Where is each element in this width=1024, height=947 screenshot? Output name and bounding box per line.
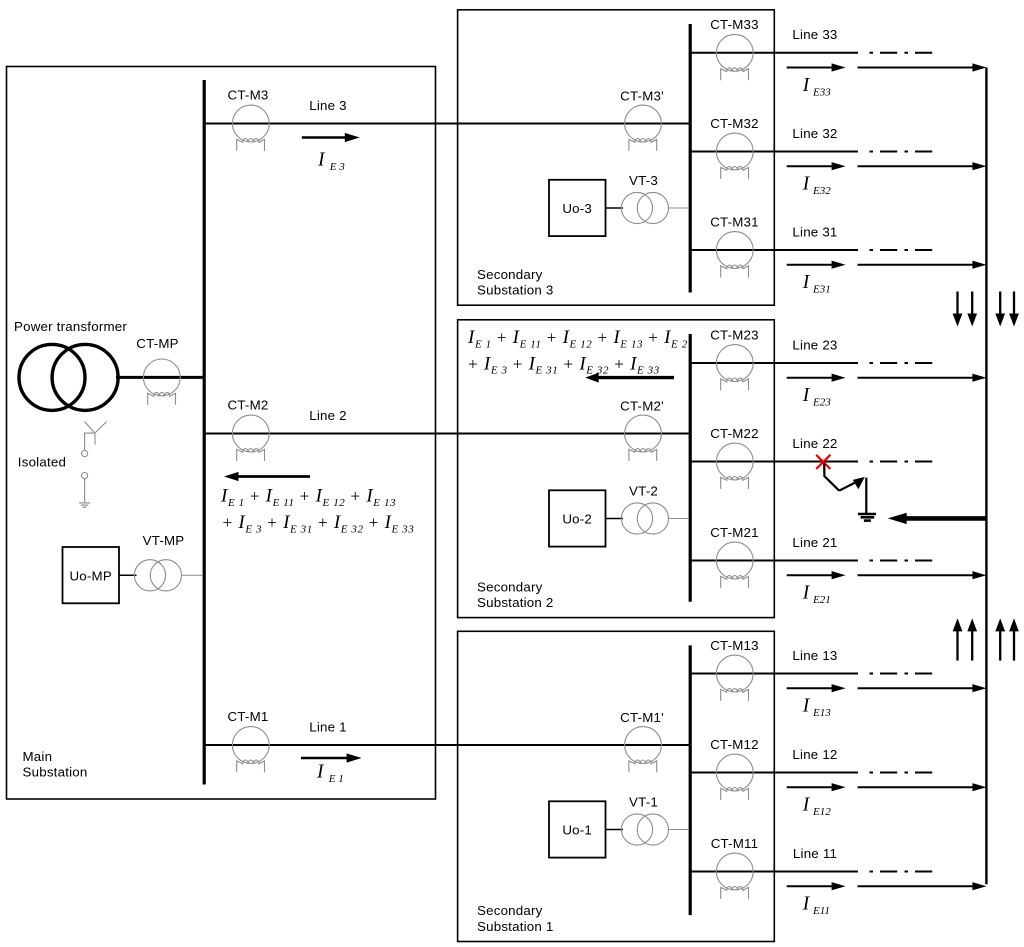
arrow earth current I_E21 (near end) (787, 571, 846, 579)
label VT-MP (143, 533, 185, 548)
wire Line 31 dash-dot continuation (870, 249, 935, 251)
arrow distributed capacitive current down (right pair 2) (1009, 292, 1019, 327)
wire Line 3 (204, 123, 690, 125)
svg-text:Secondary: Secondary (477, 267, 543, 282)
fault red X earth fault location on Line 22 (816, 455, 830, 469)
label CT-M22 (710, 426, 759, 441)
wire Line 22 feeder (690, 461, 858, 463)
terminal lower isolator contact (82, 473, 88, 479)
svg-text:CT-M21: CT-M21 (710, 525, 759, 540)
svg-text:E12: E12 (812, 806, 831, 818)
svg-text:Line 23: Line 23 (792, 337, 837, 352)
device Uo-2 relay box (549, 490, 606, 546)
wire earth-return collector line (985, 68, 987, 885)
CT CT-M12 (716, 754, 753, 800)
svg-text:E 1: E 1 (328, 773, 344, 785)
svg-text:Line 32: Line 32 (792, 126, 837, 141)
bus secondary substation 1 busbar (689, 645, 692, 915)
svg-text:Line 33: Line 33 (792, 27, 837, 42)
label CT-MP (136, 336, 178, 351)
svg-text:E 3: E 3 (329, 161, 345, 173)
wire Line 23 feeder (690, 362, 858, 364)
VT VT-2 (621, 503, 668, 534)
label CT-M13 (710, 638, 759, 653)
wire Uo-MP to VT-MP (119, 574, 137, 576)
label Line 31 (792, 224, 837, 239)
wire VT-3 to busbar (668, 207, 689, 209)
CT CT-M33 (716, 34, 753, 80)
label I_E31 (802, 272, 831, 295)
label Line 2 (309, 408, 347, 423)
enclosure Main Substation box (7, 67, 436, 800)
svg-text:Line 11: Line 11 (793, 846, 837, 861)
svg-text:CT-M1: CT-M1 (228, 709, 269, 724)
label CT-M3' (620, 89, 664, 104)
wire Line 21 dash-dot continuation (870, 560, 935, 562)
wire Line 32 dash-dot continuation (870, 151, 935, 153)
svg-text:CT-M13: CT-M13 (710, 638, 759, 653)
svg-text:Uo-MP: Uo-MP (69, 568, 111, 583)
arrow distributed capacitive current up (left pair 1) (953, 618, 963, 660)
label sum current formula line 1 (secondary substation 2) (467, 327, 688, 350)
label Line 21 (792, 535, 837, 550)
CT CT-M13 (716, 655, 753, 701)
arrow earth current I_E32 (far end into collector) (858, 162, 987, 170)
wire Line 32 feeder (690, 151, 858, 153)
svg-text:Line 12: Line 12 (792, 747, 837, 762)
arrow distributed capacitive current up (right pair 1) (995, 618, 1005, 660)
svg-text:VT-2: VT-2 (629, 484, 658, 499)
enclosure Secondary Substation 2 box (458, 320, 775, 618)
svg-text:CT-M3': CT-M3' (620, 89, 664, 104)
label Line 13 (792, 648, 837, 663)
svg-text:CT-M2: CT-M2 (228, 398, 269, 413)
label Isolated (18, 455, 66, 470)
wire Uo-1 to VT-1 (606, 829, 624, 831)
svg-text:CT-M2': CT-M2' (620, 399, 664, 414)
arrow earth current I_E12 (near end) (787, 783, 846, 791)
bus secondary substation 2 busbar (689, 334, 692, 602)
svg-text:E33: E33 (812, 86, 831, 98)
label Line 12 (792, 747, 837, 762)
arrow earth current I_E31 (near end) (787, 261, 846, 269)
wire Line 11 feeder (690, 871, 858, 873)
label I_E13 (802, 696, 831, 719)
label sum current formula line 2 (secondary substation 2) (467, 353, 660, 376)
wire Line 2 (204, 433, 690, 435)
arrow distributed capacitive current up (left pair 2) (967, 618, 977, 660)
arrow earth current I_E33 (far end into collector) (858, 63, 987, 71)
CT CT-M3 (232, 105, 269, 151)
svg-text:Substation 1: Substation 1 (477, 919, 554, 934)
label sum current formula line 2 (main) (222, 512, 415, 535)
svg-text:Line 13: Line 13 (792, 648, 837, 663)
wire VT-1 to busbar (668, 829, 689, 831)
arrow distributed capacitive current down (left pair 1) (953, 292, 963, 327)
svg-text:E31: E31 (812, 284, 831, 296)
svg-text:IE 1 + IE 11 + IE 12 + IE 13: IE 1 + IE 11 + IE 12 + IE 13 (220, 486, 396, 509)
label VT-3 (629, 173, 658, 188)
label CT-M31 (710, 214, 759, 229)
wire fault path from fault point (824, 464, 839, 491)
CT CT-M2 (232, 415, 269, 461)
svg-text:E23: E23 (812, 397, 831, 409)
wire Line 33 dash-dot continuation (870, 52, 935, 54)
label Line 11 (793, 846, 837, 861)
enclosure Secondary Substation 1 box (458, 631, 775, 941)
arrow sum current toward busbar (secondary substation 2) (585, 373, 674, 383)
label Line 32 (792, 126, 837, 141)
arrow earth current I_E13 (far end into collector) (858, 684, 987, 692)
svg-text:CT-M31: CT-M31 (710, 214, 759, 229)
wire Line 13 dash-dot continuation (870, 673, 935, 675)
wire VT-MP to busbar (181, 574, 203, 576)
arrow sum current on Line 2 toward busbar (224, 472, 310, 481)
arrow earth current I_E23 (far end into collector) (858, 374, 987, 382)
arrow earth current I_E3 direction (302, 133, 360, 142)
power transformer T1 (19, 344, 118, 410)
ground earth symbol (isolated neutral) (79, 503, 90, 507)
label sum current formula line 1 (main) (220, 486, 396, 509)
svg-text:Secondary: Secondary (477, 903, 543, 918)
CT CT-M31 (716, 232, 753, 278)
CT CT-M21 (716, 542, 753, 588)
device Uo-1 relay box (549, 801, 606, 857)
arrow distributed capacitive current up (right pair 2) (1009, 618, 1019, 660)
label Line 22 (792, 436, 837, 451)
arrow total earth-fault current returning from collector to fault (888, 513, 987, 524)
device Uo-3 relay box (549, 180, 606, 236)
label VT-1 (629, 795, 658, 810)
label Line 3 (309, 98, 347, 113)
arrow earth current I_E11 (near end) (787, 882, 846, 890)
svg-text:VT-3: VT-3 (629, 173, 658, 188)
arrow earth current I_E13 (near end) (787, 684, 846, 692)
label I_E21 (802, 583, 831, 606)
CT CT-M23 (716, 345, 753, 391)
label Line 23 (792, 337, 837, 352)
svg-text:CT-M22: CT-M22 (710, 426, 759, 441)
svg-text:CT-M32: CT-M32 (710, 116, 759, 131)
CT CT-M1 (232, 727, 269, 773)
svg-text:Secondary: Secondary (477, 579, 543, 594)
wire transformer to busbar (116, 376, 204, 379)
svg-text:Substation: Substation (23, 765, 88, 780)
label Power transformer (14, 319, 127, 334)
arrow earth current I_E32 (near end) (787, 162, 846, 170)
label Secondary Substation 1 (477, 903, 554, 934)
wire Line 11 dash-dot continuation (870, 871, 935, 873)
wye neutral point of transformer (85, 422, 107, 451)
label CT-M3 (228, 88, 269, 103)
svg-text:E32: E32 (812, 185, 831, 197)
VT VT-MP (134, 560, 181, 591)
wire Line 12 dash-dot continuation (870, 772, 935, 774)
CT CT-M22 (716, 443, 753, 489)
svg-text:Uo-2: Uo-2 (562, 511, 592, 526)
svg-text:Line 31: Line 31 (792, 224, 837, 239)
svg-text:E11: E11 (812, 905, 830, 917)
svg-text:VT-1: VT-1 (629, 795, 658, 810)
svg-text:Main: Main (23, 749, 53, 764)
svg-text:Line 2: Line 2 (309, 408, 347, 423)
wire Line 33 feeder (690, 52, 858, 54)
label CT-M2 (228, 398, 269, 413)
svg-text:Power transformer: Power transformer (14, 319, 127, 334)
bus secondary substation 3 busbar (689, 24, 692, 293)
ground earth electrode at fault (858, 514, 876, 521)
svg-text:VT-MP: VT-MP (143, 533, 185, 548)
label I_E11 (802, 894, 830, 917)
svg-text:Line 21: Line 21 (792, 535, 837, 550)
svg-text:CT-MP: CT-MP (136, 336, 178, 351)
CT CT-M2' (625, 415, 662, 461)
svg-text:CT-M12: CT-M12 (710, 737, 759, 752)
bus main substation busbar (203, 80, 206, 785)
label CT-M33 (710, 17, 759, 32)
svg-text:CT-M23: CT-M23 (710, 327, 759, 342)
wire Uo-2 to VT-2 (606, 518, 624, 520)
arrow distributed capacitive current down (right pair 1) (995, 292, 1005, 327)
VT VT-1 (621, 814, 668, 845)
wire neutral to earth (84, 479, 86, 502)
arrow earth current I_E33 (near end) (787, 63, 846, 71)
svg-text:Line 3: Line 3 (309, 98, 347, 113)
CT CT-MP (143, 359, 180, 405)
arrow earth current I_E11 (far end into collector) (858, 882, 987, 890)
enclosure Secondary Substation 3 box (458, 10, 775, 305)
label CT-M23 (710, 327, 759, 342)
svg-text:CT-M1': CT-M1' (620, 710, 664, 725)
device Uo-MP relay box (63, 547, 120, 603)
svg-text:Uo-1: Uo-1 (562, 822, 592, 837)
wire Line 22 dash-dot continuation (870, 461, 935, 463)
label Secondary Substation 2 (477, 579, 554, 610)
label VT-2 (629, 484, 658, 499)
wire Line 21 feeder (690, 560, 858, 562)
label CT-M21 (710, 525, 759, 540)
wire fault down-lead to earth (865, 478, 867, 513)
svg-text:Line 22: Line 22 (792, 436, 837, 451)
CT CT-M1' (625, 727, 662, 773)
label CT-M2' (620, 399, 664, 414)
svg-text:Substation 2: Substation 2 (477, 595, 554, 610)
label I_E1 (316, 762, 344, 785)
wire Line 1 (204, 744, 690, 746)
svg-text:Uo-3: Uo-3 (562, 201, 592, 216)
arrow earth current I_E12 (far end into collector) (858, 783, 987, 791)
arrow earth current I_E21 (far end into collector) (858, 571, 987, 579)
arrow earth current I_E31 (far end into collector) (858, 261, 987, 269)
VT VT-3 (621, 192, 668, 223)
wire VT-2 to busbar (668, 518, 689, 520)
label CT-M1' (620, 710, 664, 725)
svg-text:Line 1: Line 1 (309, 720, 347, 735)
label I_E12 (802, 795, 831, 818)
arrow distributed capacitive current down (left pair 2) (967, 292, 977, 327)
wire Line 12 feeder (690, 772, 858, 774)
CT CT-M32 (716, 133, 753, 179)
svg-text:CT-M11: CT-M11 (711, 836, 759, 851)
label I_E33 (802, 75, 831, 98)
wire Line 31 feeder (690, 249, 858, 251)
label I_E3 (317, 150, 345, 173)
label Line 1 (309, 720, 347, 735)
CT CT-M11 (716, 853, 753, 899)
svg-text:CT-M33: CT-M33 (710, 17, 759, 32)
svg-text:CT-M3: CT-M3 (228, 88, 269, 103)
arrow earth current I_E23 (near end) (787, 374, 846, 382)
label CT-M1 (228, 709, 269, 724)
label Secondary Substation 3 (477, 267, 554, 298)
svg-text:E21: E21 (812, 594, 831, 606)
svg-text:Isolated: Isolated (18, 455, 66, 470)
label I_E23 (802, 385, 831, 408)
arrow fault current into earth electrode (839, 477, 865, 491)
terminal upper isolator contact (82, 451, 88, 457)
label I_E32 (802, 174, 831, 197)
wire Uo-3 to VT-3 (606, 207, 624, 209)
label Main Substation (23, 749, 88, 780)
label CT-M12 (710, 737, 759, 752)
svg-text:E13: E13 (812, 707, 831, 719)
label Line 33 (792, 27, 837, 42)
wire Line 23 dash-dot continuation (870, 362, 935, 364)
label CT-M11 (711, 836, 759, 851)
wire Line 13 feeder (690, 673, 858, 675)
svg-text:Substation 3: Substation 3 (477, 283, 554, 298)
label CT-M32 (710, 116, 759, 131)
arrow earth current I_E1 direction (301, 753, 362, 762)
CT CT-M3' (625, 105, 662, 151)
